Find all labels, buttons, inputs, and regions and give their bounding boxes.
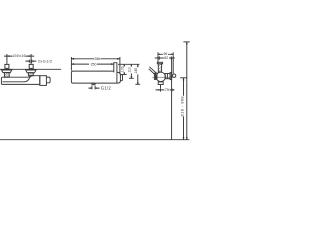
dim line 96 (side view)	[158, 52, 173, 56]
handle (side view)	[154, 73, 157, 79]
dim line 75	[156, 88, 175, 91]
dim 2xG1/2 line and ticks	[25, 60, 36, 63]
left union nut	[5, 64, 9, 68]
connector facet line	[166, 74, 168, 79]
holder arm diagonal upper	[149, 67, 157, 74]
extension line 286 right	[119, 57, 121, 74]
svg-text:110: 110	[128, 67, 132, 73]
reference line for vertical dims	[118, 63, 140, 65]
left union stem hatched	[4, 73, 9, 78]
wall line (side view)	[171, 58, 173, 139]
left escutcheon	[2, 70, 12, 73]
mixer body (middle view)	[71, 71, 117, 83]
extension line right union	[30, 54, 32, 64]
svg-text:818 - 968: 818 - 968	[180, 96, 185, 117]
top outlet stem (side view, hatched)	[158, 64, 161, 72]
wall escutcheon edge (side view)	[170, 73, 172, 80]
vertical dim 103	[122, 64, 127, 74]
fixture centerline (side view)	[152, 76, 175, 78]
extension line pipe rear	[172, 56, 174, 74]
body internal line with rise (front view)	[3, 76, 33, 82]
hose outlet stub below circle	[158, 82, 163, 85]
svg-text:G1/2: G1/2	[101, 86, 112, 91]
extension line 96 left	[157, 56, 159, 62]
floor line	[0, 139, 189, 141]
svg-text:145: 145	[134, 68, 138, 74]
svg-text:2xG1/2: 2xG1/2	[38, 59, 53, 64]
right union stem hatched	[28, 73, 33, 76]
body right cap (front view)	[40, 76, 47, 86]
dim line 82 (side view)	[155, 56, 175, 59]
body plateau top (front view)	[28, 76, 40, 78]
handle inner line	[155, 73, 157, 79]
svg-text:286: 286	[94, 57, 100, 61]
end knob (front view)	[46, 77, 50, 83]
wall connector (side view)	[165, 74, 170, 79]
dim line 250 (middle view)	[71, 63, 113, 65]
end cap (middle view)	[117, 72, 121, 83]
top outlet upstand (middle view)	[114, 63, 117, 73]
vertical dim 110	[129, 64, 134, 78]
right escutcheon	[26, 70, 36, 73]
end knob (middle view)	[120, 75, 122, 81]
vertical dim 145	[135, 64, 140, 84]
dim G1/2 ticks	[92, 86, 95, 90]
svg-text:150±16: 150±16	[12, 54, 25, 58]
dim G1/2 arrows	[88, 87, 99, 89]
top outlet stem cap (side view)	[157, 62, 162, 64]
mixer body (front view)	[1, 76, 39, 85]
bottom outlet stub (middle view)	[92, 83, 96, 85]
thermostat body circle (side view)	[156, 72, 165, 81]
wall reference line (front view)	[0, 68, 61, 70]
behind-wall pipe circle	[172, 74, 175, 77]
svg-text:82: 82	[164, 56, 168, 60]
svg-text:103: 103	[120, 66, 124, 72]
extension line body left	[70, 57, 72, 71]
vertical dim height 818-968	[183, 78, 184, 140]
extension line left union	[6, 54, 8, 64]
dim line 150±16 (front view)	[4, 55, 34, 56]
extension line outlet stub	[160, 85, 162, 88]
svg-text:250: 250	[91, 63, 97, 67]
height dim axis tick	[180, 77, 187, 79]
height dim top tick	[183, 41, 189, 43]
right union nut	[29, 64, 33, 68]
dim line 286 (middle view)	[71, 58, 120, 60]
vertical dim full height	[186, 42, 187, 140]
holder arm diagonal lower	[149, 69, 156, 76]
svg-text:75: 75	[165, 88, 169, 92]
